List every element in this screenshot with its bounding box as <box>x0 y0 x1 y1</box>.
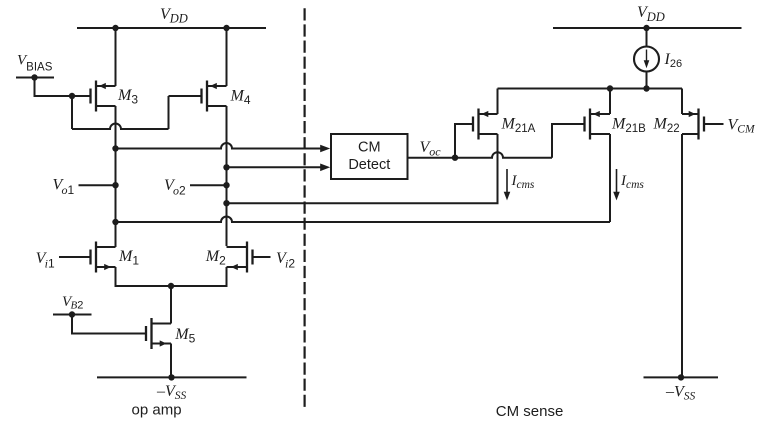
transistor M21A <box>473 109 498 140</box>
label VCM <box>728 117 756 136</box>
label I26 <box>664 51 683 70</box>
block CM Detect <box>331 134 408 179</box>
wire M4 drain to M2 drain (Vo2 rail) <box>226 106 228 246</box>
label VB2 <box>62 294 83 312</box>
svg-text:o2: o2 <box>173 184 186 198</box>
wire VDD rail (CM sense) <box>553 27 742 29</box>
wire M21A source up <box>497 89 499 115</box>
label M3 <box>117 87 138 107</box>
annotation Icms arrow (M21A) <box>504 169 511 200</box>
node junction Vo2 sense tap <box>223 164 229 170</box>
dashed section divider <box>304 8 306 407</box>
wire VBIAS to M3 gate <box>35 78 92 97</box>
svg-text:op amp: op amp <box>132 402 182 419</box>
node junction Vo2 <box>223 182 229 188</box>
wire VDD to M4 source <box>226 28 228 86</box>
wire Vi1 gate lead <box>59 256 91 258</box>
svg-text:CM: CM <box>358 140 381 156</box>
wire CM sense source rail <box>498 88 683 90</box>
wire rail to M22 source <box>681 89 683 115</box>
wire VB2 stub <box>53 314 92 316</box>
svg-text:i2: i2 <box>285 256 295 270</box>
label Vi1 <box>36 250 55 270</box>
node junction Voc <box>452 155 458 161</box>
wire VCM gate lead <box>704 123 724 125</box>
wire M1-M2 common source <box>116 267 227 286</box>
label Vi2 <box>276 250 295 270</box>
wire Voc to M21A gate <box>455 124 473 158</box>
svg-text:CM sense: CM sense <box>496 403 564 420</box>
wire tail to M5 drain <box>170 286 172 324</box>
label M2 <box>205 248 226 268</box>
wire I26 to source rail <box>646 72 648 89</box>
svg-text:o1: o1 <box>62 183 75 197</box>
wire Vo1 to M21B drain <box>116 134 611 222</box>
label M4 <box>230 88 251 108</box>
wire -VSS rail (CM sense) <box>644 376 719 378</box>
node junction -VSS (op amp) <box>168 374 174 380</box>
node junction VDD-I26 <box>643 25 649 31</box>
transistor M5 <box>146 318 171 349</box>
label CM Detect <box>348 140 390 173</box>
label M22 <box>653 116 680 136</box>
transistor M3 <box>91 81 116 112</box>
label VDD (op amp) <box>160 6 188 26</box>
label M5 <box>174 326 195 346</box>
node junction Vo1 sense tap <box>112 145 118 151</box>
node junction on VBIAS stub <box>31 74 37 80</box>
annotation Icms arrow (M21B) <box>613 169 620 200</box>
wire VDD rail (op amp) <box>77 27 266 29</box>
wire M3 drain to M1 drain (Vo1 rail) <box>115 106 117 247</box>
wire M21B source up <box>609 89 611 115</box>
svg-text:Detect: Detect <box>348 157 390 173</box>
node junction VDD-M3 drop <box>112 25 118 31</box>
wire M22 drain to -VSS <box>681 134 683 377</box>
transistor M2 <box>227 242 253 273</box>
label -VSS (CM sense) <box>665 384 696 403</box>
label M21A <box>501 116 536 136</box>
node junction Vo1 <box>112 182 118 188</box>
node junction VB2 <box>69 311 75 317</box>
node junction VDD-M4 drop <box>223 25 229 31</box>
label VDD (CM sense) <box>637 4 665 24</box>
svg-text:i1: i1 <box>45 256 55 270</box>
label Voc <box>420 139 442 159</box>
transistor M21B <box>585 109 611 140</box>
wire Vo2 label lead <box>190 184 227 186</box>
wire M5 source to -VSS <box>170 344 172 378</box>
label Vo1 <box>53 177 75 198</box>
wire VB2 to M5 gate <box>72 315 147 334</box>
label Icms (M21B) <box>620 173 644 191</box>
wire VDD to M3 source <box>115 28 117 86</box>
wire -VSS rail (op amp) <box>97 376 247 378</box>
wire Vo1 label lead <box>79 184 116 186</box>
label Vo2 <box>164 177 186 198</box>
wire Vi2 gate lead <box>253 256 271 258</box>
wire VBIAS stub <box>16 77 54 79</box>
node junction I26-rail <box>643 85 649 91</box>
node junction M21B source <box>607 85 613 91</box>
node junction tail <box>168 283 174 289</box>
label -VSS (op amp) <box>156 383 187 402</box>
svg-text:B2: B2 <box>71 300 84 312</box>
wire M3 gate-drain diode connection <box>72 96 202 129</box>
node junction M3 gate tie <box>69 93 75 99</box>
label VBIAS <box>17 53 53 74</box>
node junction Vo1 to M21B drain tap <box>112 219 118 225</box>
label CM sense <box>496 403 564 420</box>
label M1 <box>118 248 139 268</box>
transistor M1 <box>91 242 116 273</box>
label op amp <box>132 402 182 419</box>
wire Voc to M21B gate <box>552 124 585 158</box>
wire Vo1 to CM Detect input 1 <box>116 143 331 152</box>
transistor M4 <box>202 81 227 112</box>
wire Voc output of CM Detect <box>408 152 553 158</box>
label M21B <box>611 116 646 136</box>
wire Vo2 to M21A drain <box>227 134 498 203</box>
wire VDD to I26 <box>646 28 648 47</box>
transistor M22 <box>682 109 704 140</box>
wire Vo2 to CM Detect input 2 <box>227 164 331 172</box>
node junction Vo2 to M21A drain tap <box>223 200 229 206</box>
current source I26 <box>634 47 659 72</box>
label Icms (M21A) <box>511 173 535 191</box>
node junction -VSS (CM sense) <box>678 374 684 380</box>
